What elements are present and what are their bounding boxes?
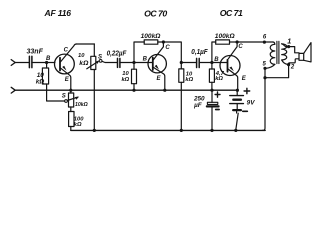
svg-text:kΩ: kΩ — [79, 60, 89, 67]
secondary bottom lead — [282, 60, 288, 64]
wire C2 to Q2 base node — [120, 62, 153, 64]
Q3 collector — [228, 42, 237, 59]
node collector Q2 — [162, 40, 165, 43]
node base Q3 — [210, 61, 213, 64]
wire input to C1 — [15, 62, 29, 64]
svg-text:kΩ: kΩ — [74, 122, 82, 128]
svg-text:6: 6 — [263, 34, 267, 40]
wire down to pot P2 — [93, 44, 95, 56]
svg-text:C: C — [165, 45, 170, 51]
svg-text:AF 116: AF 116 — [44, 8, 72, 18]
battery minus sign — [243, 110, 248, 112]
Q1 collector — [60, 44, 76, 62]
svg-text:E: E — [242, 76, 247, 82]
secondary top lead to terminal 1 — [282, 44, 299, 53]
wire wiper to C2 — [102, 61, 118, 62]
svg-text:1: 1 — [287, 36, 291, 45]
speaker bottom lead — [289, 59, 299, 65]
wire junction down to negative rail — [263, 78, 266, 131]
wire terminal 2 to return junction — [265, 65, 289, 78]
Q3 emitter — [228, 69, 238, 90]
wire Q1 collector top row — [77, 43, 95, 45]
svg-text:OC 71: OC 71 — [220, 8, 243, 18]
R2 lead to negative rail — [70, 127, 72, 131]
battery long plate 1 — [230, 95, 244, 97]
node Q2 emitter / rail — [163, 89, 166, 92]
svg-text:33nF: 33nF — [27, 48, 44, 55]
svg-text:5: 5 — [263, 61, 267, 67]
transformer T1 secondary — [282, 44, 287, 60]
node C3 left — [180, 61, 183, 64]
terminal 2 — [287, 63, 290, 66]
svg-text:µF: µF — [193, 102, 203, 109]
svg-text:0,22µF: 0,22µF — [107, 51, 127, 58]
P2 bottom lead to negative rail (crosses ground rail) — [93, 70, 95, 131]
svg-text:0,1µF: 0,1µF — [191, 49, 208, 56]
C4 lead to negative rail — [211, 108, 213, 131]
battery short plate 1 — [233, 99, 241, 101]
terminal 1 — [287, 45, 290, 48]
primary bottom lead to terminal 5 — [266, 64, 275, 68]
wire node to C3 — [181, 62, 196, 64]
Q2 emitter — [153, 67, 165, 90]
svg-text:E: E — [156, 76, 161, 82]
Q2 collector — [153, 42, 163, 60]
P2 wiper terminal — [99, 60, 102, 63]
P1 wiper arrow — [67, 97, 77, 100]
wire Q2 collector to load resistor column — [163, 42, 181, 63]
input terminal top — [11, 60, 15, 66]
P2 wiper arrow — [87, 62, 98, 69]
resistor R5 10k (Q2 base bias) — [133, 64, 135, 69]
C4 plate outlined — [207, 102, 217, 104]
potentiometer P2 10k (volume) — [91, 56, 96, 69]
svg-text:kΩ: kΩ — [36, 78, 45, 85]
capacitor C3 0.1uF — [197, 58, 200, 67]
input terminal bottom — [11, 87, 15, 93]
node base Q2 — [132, 61, 135, 64]
node base Q1 — [45, 61, 48, 64]
transformer primary terminal 6 — [263, 41, 266, 44]
wire R1 to P1 wiper (crosses ground rail) — [47, 84, 65, 101]
transformer T1 primary — [273, 42, 275, 44]
P1 wiper terminal — [65, 100, 68, 103]
wire junction up to terminal 5 — [264, 68, 266, 77]
transistor Q1 AF116 — [55, 54, 75, 74]
resistor R2 100k — [70, 107, 72, 112]
C4 plus sign — [215, 92, 220, 97]
svg-text:B: B — [143, 56, 148, 62]
resistor R6 10k (Q2 load) — [180, 63, 182, 69]
ground rail — [15, 89, 237, 91]
negative rail — [71, 129, 265, 131]
svg-text:10kΩ: 10kΩ — [75, 102, 88, 108]
svg-text:100kΩ: 100kΩ — [215, 33, 236, 40]
potentiometer P1 10k (Q1 emitter) — [70, 90, 72, 93]
transformer core — [277, 41, 279, 63]
svg-text:S: S — [62, 93, 66, 99]
C4 minus — [216, 109, 219, 111]
battery long plate 2 — [230, 103, 244, 105]
svg-text:B: B — [46, 56, 51, 62]
transistor Q2 OC70 — [148, 55, 166, 73]
svg-text:B: B — [214, 57, 219, 63]
battery lead 2 — [236, 104, 238, 109]
switch S1 stub — [236, 111, 238, 113]
svg-text:OC 70: OC 70 — [144, 8, 167, 18]
resistor R7 100k (feedback Q3) — [216, 40, 230, 44]
svg-text:C: C — [238, 44, 243, 50]
R6 lead to negative rail (crosses ground rail) — [180, 82, 182, 130]
svg-text:2: 2 — [290, 65, 295, 71]
svg-text:kΩ: kΩ — [185, 77, 193, 83]
battery short plate 2 / switch contact — [233, 109, 241, 111]
wire base node up to feedback resistor — [134, 42, 144, 63]
capacitor C2 0.22uF — [118, 58, 120, 67]
speaker LS1 — [299, 53, 304, 60]
wire C1 to base node — [32, 62, 55, 64]
transistor Q3 OC71 — [220, 56, 240, 76]
capacitor C4 250uF lead — [211, 91, 213, 103]
wire base node up to feedback resistor — [212, 42, 216, 63]
resistor R8 4.7k (Q3 base bias) — [211, 64, 213, 69]
battery plus sign — [244, 88, 250, 93]
svg-text:100kΩ: 100kΩ — [141, 33, 162, 40]
switch S1 lever — [236, 113, 238, 130]
battery B1 9V lead — [236, 90, 238, 95]
svg-text:C: C — [64, 48, 69, 54]
svg-text:kΩ: kΩ — [121, 77, 129, 83]
node collector Q3 — [236, 40, 239, 43]
wire R4 to collector node — [158, 41, 164, 43]
resistor R1 10k lead — [46, 64, 48, 68]
svg-text:10: 10 — [78, 53, 85, 59]
junction return — [263, 76, 266, 79]
svg-text:S: S — [98, 54, 102, 60]
wire Q3 collector to transformer — [237, 41, 273, 43]
node Q1 emitter / rail — [69, 89, 72, 92]
wire C3 to Q3 base node — [199, 62, 227, 64]
svg-text:kΩ: kΩ — [215, 76, 223, 82]
resistor R1 10k — [42, 68, 48, 84]
capacitor C1 33nF — [29, 56, 32, 67]
wire R7 to collector node — [230, 41, 238, 43]
C4 plate thick — [207, 105, 219, 107]
node Q3 emitter / rail end — [236, 89, 239, 92]
resistor R4 100k (feedback Q2) — [144, 40, 158, 44]
svg-text:E: E — [65, 77, 70, 83]
Q1 emitter — [61, 68, 71, 90]
svg-text:9V: 9V — [247, 99, 256, 106]
